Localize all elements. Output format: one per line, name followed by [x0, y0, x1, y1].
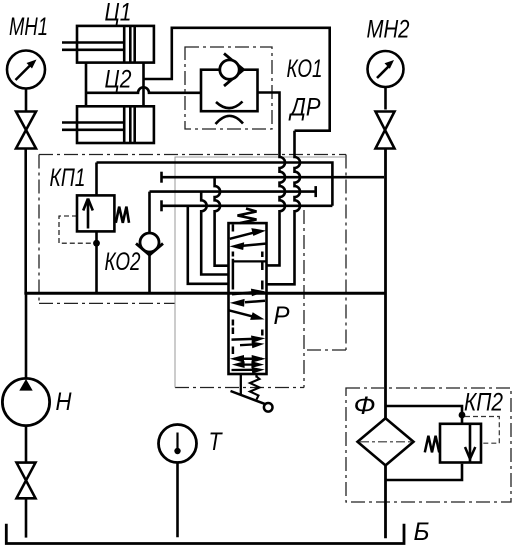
wire V5 drop from top loop with hops — [267, 131, 301, 285]
shutoff valve VN3 — [17, 463, 36, 499]
P arrow sec4 double b — [238, 363, 258, 365]
wire MN2 stem — [384, 87, 387, 110]
cylinder C2 — [62, 106, 154, 143]
P arrow sec3 diagonal down-right — [228, 310, 252, 316]
svg-text:ДР: ДР — [288, 94, 321, 122]
wire L3 with plug tick — [150, 190, 316, 193]
gauge MN2 needle head — [385, 60, 395, 69]
svg-text:МН2: МН2 — [367, 16, 410, 44]
P arrow sec4 right a — [232, 338, 254, 341]
KP2 spring — [425, 436, 439, 453]
enclosure thin box around valve P — [175, 157, 345, 388]
svg-text:Т: Т — [209, 428, 223, 456]
P lever — [231, 391, 266, 404]
KP2 pilot thin line — [465, 417, 499, 444]
DR throttle arcs — [216, 102, 244, 125]
svg-text:Ц1: Ц1 — [105, 0, 132, 27]
wire KP2 top branch — [386, 406, 463, 424]
wire KP1 bottom — [95, 231, 98, 294]
tank outline — [6, 524, 404, 544]
wire V2 drop with hop — [201, 192, 228, 275]
wire V3 drop — [188, 206, 229, 284]
junction dot KP2 — [459, 412, 466, 419]
wire L4 with plug tick — [162, 205, 333, 208]
P arrow sec3 right — [232, 292, 252, 294]
KP2 arrow down — [465, 447, 475, 459]
P arrow sec1 left — [243, 244, 266, 246]
relief valve KP1 body — [77, 195, 114, 231]
wire main pressure line — [24, 292, 384, 295]
P top spring — [238, 209, 257, 224]
wire MN1 stem — [25, 89, 28, 112]
P lever knob — [264, 403, 273, 412]
wire junction to pump — [25, 293, 28, 379]
filter block enclosure — [346, 388, 511, 502]
wire cylinder line to KO1 with hop — [86, 87, 201, 93]
wire KP2 bottom branch — [386, 464, 463, 480]
relief valve KP2 body — [440, 424, 481, 463]
filter F — [358, 418, 414, 465]
wire filter to tank — [384, 465, 387, 538]
svg-text:Б: Б — [414, 518, 430, 546]
P arrow sec1 up-right — [230, 233, 254, 239]
pump N — [2, 378, 49, 425]
cylinder C1 — [62, 26, 154, 63]
KP1 spring — [116, 207, 129, 223]
gauge MN1 needle head — [27, 60, 37, 69]
wire KP1 top to L1 — [95, 163, 98, 196]
P inner port bars right — [261, 252, 264, 336]
svg-text:КО1: КО1 — [287, 55, 323, 83]
wire thermometer to tank — [176, 463, 179, 538]
wire MN1 valve to pump junction — [24, 149, 27, 295]
thermometer T — [159, 425, 197, 463]
svg-text:КП2: КП2 — [464, 389, 503, 417]
junction dot KP1 pilot — [93, 240, 100, 247]
pump N arrow — [19, 379, 32, 391]
svg-text:Н: Н — [56, 388, 73, 416]
P arrow sec4 right b — [240, 343, 252, 346]
P lever spring — [250, 377, 260, 400]
svg-text:МН1: МН1 — [9, 13, 48, 41]
wire cylinders left link — [85, 63, 88, 107]
wire V1 drop to valve P port with hops — [215, 177, 229, 266]
wire MN2 down the right side — [384, 149, 387, 419]
directional valve P body — [229, 223, 267, 374]
P arrow sec4 right c — [232, 369, 253, 372]
svg-text:Ц2: Ц2 — [105, 66, 132, 94]
KP1 pilot dashed line — [59, 216, 97, 243]
check valve KO2 — [136, 233, 163, 255]
KO1 check valve seat — [224, 54, 244, 87]
check valve with throttle KO1/DR body — [201, 70, 258, 112]
wire cylinders right link — [142, 63, 145, 107]
svg-text:Р: Р — [274, 302, 290, 330]
wire L2 with plug tick — [162, 176, 385, 179]
gauge MN1 — [7, 51, 45, 89]
wire top loop from cylinders to valve P — [144, 28, 330, 131]
gauge MN2 — [368, 51, 404, 87]
wire P bottom stub right — [255, 374, 257, 378]
svg-text:КО2: КО2 — [105, 248, 141, 276]
wire KO1 out to drop V4 with hops — [258, 93, 286, 266]
enclosure dash-dot box (hydraulic unit boundary) — [39, 155, 346, 388]
wire KO2 line — [148, 192, 151, 295]
svg-text:КП1: КП1 — [50, 164, 86, 192]
wire valve to tank — [25, 498, 28, 537]
KP1 arrow — [87, 200, 90, 229]
P internal separator line — [234, 260, 267, 262]
wire pump to valve — [25, 425, 28, 463]
shutoff valve VN2 — [376, 112, 395, 149]
shutoff valve VN1 — [16, 112, 36, 149]
wire P bottom stub left — [240, 374, 242, 394]
svg-text:Ф: Ф — [354, 392, 376, 420]
KO1 check valve ball — [220, 60, 239, 79]
P arrow sec3 left — [245, 301, 265, 302]
wire L1 top line with right loop — [97, 163, 333, 206]
P arrow sec4 double a — [234, 358, 262, 361]
P inner port bars left — [232, 225, 235, 355]
check-throttle KO1 enclosure — [185, 47, 272, 129]
